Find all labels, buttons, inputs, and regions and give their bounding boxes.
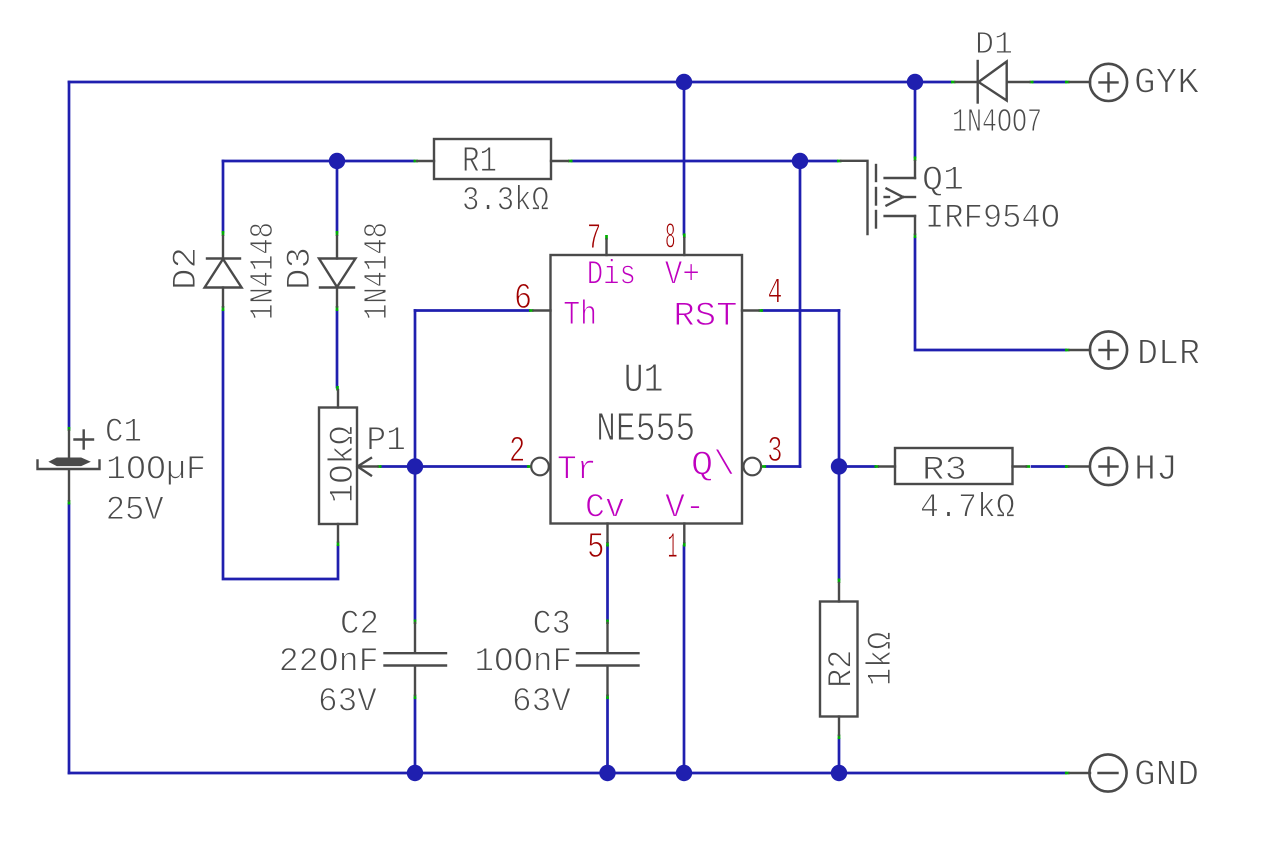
diode D3 (points down, cathode bar bottom): [336, 236, 338, 259]
svg-text:5: 5: [587, 527, 605, 568]
C3 pin tip bottom: [606, 695, 609, 700]
wire left rail lower: [68, 504, 71, 773]
wire Q1 source up: [914, 82, 917, 157]
svg-text:1kΩ: 1kΩ: [862, 632, 901, 686]
svg-text:22OnF: 22OnF: [279, 643, 379, 682]
D3 pin tip top: [336, 231, 339, 236]
svg-text:GND: GND: [1134, 755, 1199, 796]
D1 anode pin tip: [951, 81, 956, 84]
svg-text:1OOµF: 1OOµF: [106, 451, 206, 490]
wire R1 left to D2/D3 node: [223, 160, 414, 163]
svg-text:4.7kΩ: 4.7kΩ: [920, 489, 1015, 528]
D3 pin tip bottom: [336, 306, 339, 311]
P1 wiper pin tip: [378, 465, 382, 468]
wire Q1 drain to DLR: [915, 238, 1066, 350]
IC U1 box: [551, 255, 743, 524]
wire pin8 vertical: [683, 82, 686, 234]
wire C3 bottom: [606, 698, 609, 773]
DLR terminal pin tip: [1065, 349, 1070, 352]
wire pin6 horizontal: [415, 309, 529, 312]
C2 pin tip bottom: [414, 695, 417, 700]
node pin1 gnd: [676, 765, 692, 781]
U1 pin 5 tip: [606, 542, 609, 547]
R2 pin tip bottom: [838, 735, 841, 740]
wire gate node stub: [800, 160, 837, 163]
R1 pin tip right: [568, 160, 573, 163]
D2 cathode pin tip: [222, 231, 225, 236]
svg-text:25V: 25V: [106, 491, 164, 530]
svg-text:DLR: DLR: [1137, 333, 1200, 374]
svg-text:C2: C2: [340, 605, 379, 644]
node C3 gnd: [599, 765, 615, 781]
U1 pin 8 tip: [683, 234, 686, 239]
svg-text:NE555: NE555: [596, 407, 695, 453]
wire D3 bottom to P1 top: [336, 311, 339, 387]
R3 pin tip left: [875, 465, 880, 468]
C3 pin tip top: [606, 620, 609, 625]
GND terminal pin tip: [1065, 772, 1070, 775]
svg-text:1OkΩ: 1OkΩ: [324, 426, 363, 503]
svg-text:D1: D1: [975, 28, 1013, 63]
svg-text:1N4148: 1N4148: [359, 222, 396, 320]
wire pin5 to C3: [606, 546, 609, 620]
svg-text:Dis: Dis: [587, 256, 636, 295]
U1 pin 2 tip: [527, 465, 531, 468]
svg-text:1: 1: [668, 527, 678, 568]
R3 pin tip right: [1026, 465, 1031, 468]
transistor Q1 bulk with arrow: [885, 196, 889, 198]
P1 pin tip bottom: [337, 542, 340, 547]
svg-text:63V: 63V: [512, 683, 571, 722]
green pin tips: [69, 82, 1070, 773]
svg-text:1OOnF: 1OOnF: [475, 643, 573, 682]
node RST/R3/R2: [831, 458, 847, 474]
wire C2 bottom: [414, 698, 417, 773]
pin names magenta: [557, 256, 738, 528]
svg-text:1N4OO7: 1N4OO7: [952, 104, 1042, 141]
wire R2 bottom to GND rail: [838, 739, 841, 773]
wire pin3 to vertical: [766, 465, 800, 468]
wire D2 anode to P1 bottom (L shape): [223, 311, 338, 579]
C1 bottom pin tip: [68, 500, 71, 505]
U1 pin 4 tip: [759, 309, 764, 312]
wire D1 to GYK: [1033, 81, 1066, 84]
svg-text:R2: R2: [823, 650, 862, 688]
node C2 gnd: [407, 765, 423, 781]
diode D2 (points up, cathode bar top): [222, 236, 224, 259]
U1 pin 3 inversion circle: [744, 458, 762, 476]
svg-text:Q1: Q1: [922, 161, 964, 200]
svg-text:C1: C1: [105, 413, 142, 452]
wire R1 right to gate node: [572, 160, 800, 163]
node R2 gnd: [831, 765, 847, 781]
U1 pin 7 stub: [605, 240, 607, 256]
wire D2 top drop: [222, 161, 225, 232]
svg-text:GYK: GYK: [1134, 63, 1199, 104]
wire top rail: [69, 81, 951, 84]
svg-text:2: 2: [509, 431, 525, 472]
transistor Q1 drain: [885, 215, 915, 217]
resistor R1 body: [434, 139, 551, 179]
wire pin1 down: [683, 546, 686, 773]
svg-text:R3: R3: [922, 451, 967, 490]
U1 pin 5 stub: [606, 524, 608, 543]
svg-text:Tr: Tr: [557, 451, 597, 490]
transistor Q1 source: [885, 177, 915, 179]
capacitor C2: [414, 623, 416, 652]
wire R3 to HJ: [1032, 465, 1066, 468]
U1 pin 6 tip: [529, 309, 534, 312]
svg-text:V+: V+: [665, 256, 700, 295]
svg-text:3: 3: [767, 431, 782, 472]
node Q1/D1 top rail: [907, 74, 923, 90]
U1 pin 1 stub: [683, 524, 685, 543]
transistor Q1 gate: [841, 161, 868, 234]
svg-text:D2: D2: [167, 247, 206, 290]
svg-text:HJ: HJ: [1134, 449, 1178, 490]
U1 pin 2 inversion circle: [531, 458, 549, 476]
Q1 gate pin tip: [837, 160, 842, 163]
node R1-D2-D3: [329, 153, 345, 169]
terminal GYK circle: [1070, 81, 1091, 83]
U1 pin 4 stub: [742, 309, 759, 311]
wire node to R3: [839, 465, 875, 468]
svg-text:6: 6: [514, 278, 532, 319]
wire left rail upper: [68, 82, 71, 428]
svg-text:R1: R1: [462, 141, 497, 182]
potentiometer P1 wiper arrow: [358, 465, 378, 467]
svg-text:D3: D3: [281, 247, 320, 290]
resistor R3 body: [895, 448, 1013, 484]
U1 pin 3 tip: [762, 465, 767, 468]
D1 cathode pin tip: [1030, 81, 1034, 84]
capacitor C1 plus sign: [75, 438, 94, 440]
wire wiper to node: [381, 465, 415, 468]
wire pin4 down to R3 node: [838, 311, 841, 467]
D2 anode pin tip: [222, 306, 225, 311]
capacitor C1 positive plate (filled lens): [50, 458, 89, 465]
svg-text:IRF954O: IRF954O: [925, 199, 1060, 238]
svg-text:C3: C3: [533, 605, 571, 644]
U1 pin 7 tip: [605, 235, 608, 240]
GYK terminal pin tip: [1065, 81, 1070, 84]
wire node down to R2: [838, 467, 841, 580]
svg-text:V-: V-: [665, 489, 705, 528]
wire pin4 right: [762, 309, 839, 312]
HJ terminal pin tip: [1065, 465, 1070, 468]
wire pin2 horizontal: [415, 465, 528, 468]
C1 top pin tip: [68, 427, 71, 431]
C2 pin tip top: [414, 620, 417, 625]
capacitor C3: [606, 623, 608, 652]
svg-text:63V: 63V: [318, 683, 377, 722]
diode D1 (points left): [956, 81, 978, 83]
node pin8 top rail: [676, 74, 692, 90]
U1 pin 8 stub: [683, 238, 685, 255]
terminal DLR circle: [1070, 349, 1091, 351]
U1 pin 1 tip: [683, 542, 686, 547]
svg-text:RST: RST: [673, 297, 737, 336]
svg-text:U1: U1: [624, 358, 664, 404]
U1 pin 6 stub: [534, 309, 551, 311]
svg-text:1N4148: 1N4148: [245, 222, 282, 320]
svg-text:P1: P1: [366, 422, 406, 461]
pin numbers dark red: [509, 218, 783, 569]
svg-text:Th: Th: [563, 296, 597, 335]
capacitor C1 (polarized) leads: [68, 431, 70, 458]
node gate/R1: [792, 153, 808, 169]
Q1 source pin tip: [914, 157, 917, 162]
capacitor C1 negative plate: [38, 461, 100, 470]
R2 pin tip top: [838, 579, 841, 584]
wire bottom GND rail: [69, 772, 1066, 775]
svg-text:3.3kΩ: 3.3kΩ: [462, 182, 549, 221]
wire D3 top drop: [336, 161, 339, 232]
svg-text:8: 8: [665, 218, 676, 259]
svg-text:Cv: Cv: [585, 489, 625, 528]
potentiometer P1 body: [319, 408, 357, 525]
terminal GND circle: [1070, 772, 1091, 774]
resistor R2 body (vertical): [820, 602, 858, 717]
wire gate node down to pin3 net: [799, 161, 802, 467]
terminal HJ circle: [1090, 448, 1127, 485]
node wiper/pin2/pin6: [407, 458, 423, 474]
R1 pin tip left: [414, 160, 419, 163]
svg-text:Q\: Q\: [691, 446, 735, 485]
transistor Q1 channel dashes: [875, 165, 877, 181]
svg-text:4: 4: [768, 273, 783, 314]
Q1 drain pin tip: [914, 234, 917, 239]
wire pin6 vertical down to C2: [414, 311, 417, 621]
svg-text:7: 7: [587, 218, 601, 259]
P1 pin tip top: [336, 386, 339, 391]
